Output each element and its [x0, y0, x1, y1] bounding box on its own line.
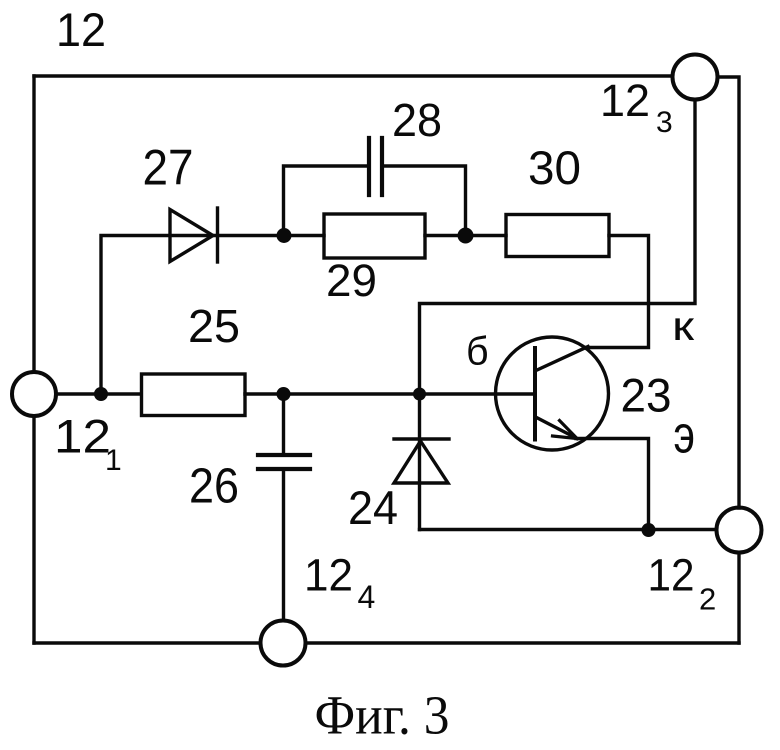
svg-text:30: 30 [528, 142, 581, 195]
svg-text:1: 1 [105, 444, 122, 477]
svg-text:Фиг. 3: Фиг. 3 [315, 684, 450, 745]
svg-text:12: 12 [54, 410, 111, 463]
svg-text:29: 29 [326, 255, 377, 306]
svg-text:3: 3 [656, 106, 673, 139]
svg-text:2: 2 [699, 582, 716, 617]
svg-text:24: 24 [348, 481, 398, 534]
svg-text:23: 23 [621, 368, 672, 421]
svg-text:4: 4 [358, 579, 376, 615]
svg-text:12: 12 [600, 75, 650, 126]
svg-text:12: 12 [648, 549, 695, 600]
svg-text:27: 27 [143, 139, 194, 195]
svg-text:к: к [672, 303, 695, 349]
svg-text:28: 28 [392, 94, 442, 146]
svg-text:26: 26 [189, 459, 239, 513]
svg-text:э: э [674, 406, 696, 465]
svg-text:12: 12 [304, 549, 353, 600]
svg-text:12: 12 [56, 3, 106, 56]
svg-text:25: 25 [188, 300, 240, 352]
svg-text:б: б [466, 330, 489, 374]
